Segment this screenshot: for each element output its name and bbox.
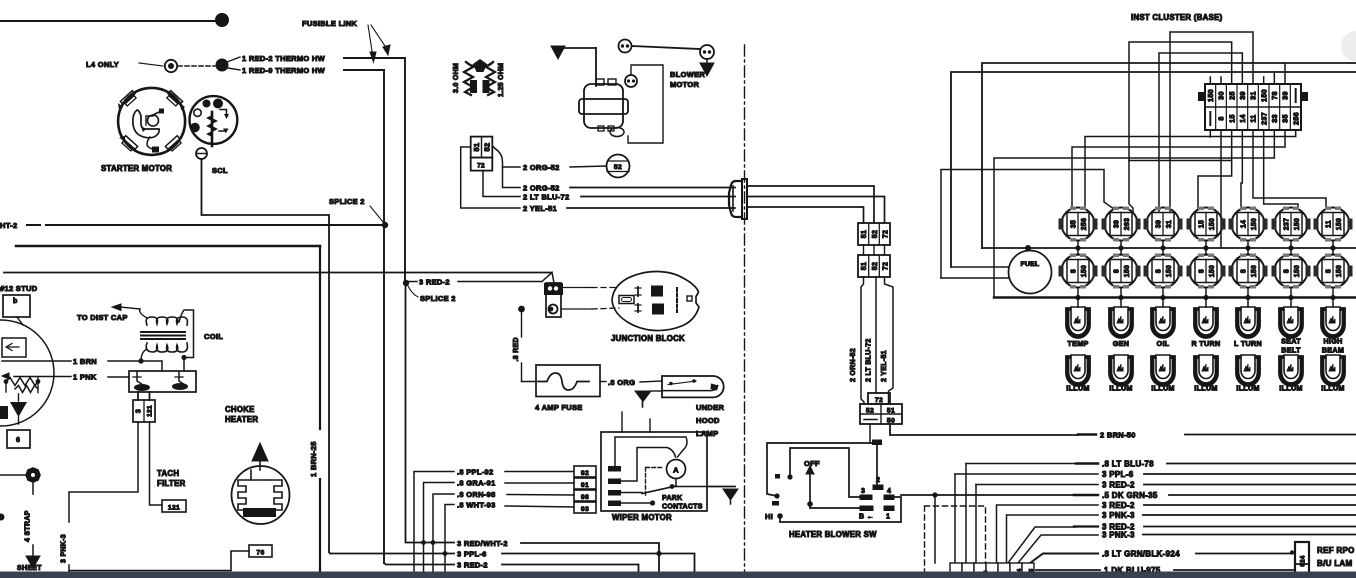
wire: bottom ground bus — [69, 570, 231, 572]
lamp socket SEAT — [1279, 307, 1303, 338]
lamp socket ILLUM — [1279, 355, 1303, 386]
svg-text:3.0 OHM: 3.0 OHM — [453, 63, 460, 93]
wire: cluster pin 8 — [1220, 130, 1222, 248]
wire: cluster pin 33 illum feed — [994, 130, 1274, 297]
connector C-wiper 98 — [574, 490, 596, 501]
wire: bulb stem — [1205, 241, 1207, 249]
wire: 3 RED-2 right b — [997, 505, 1099, 563]
svg-text:11: 11 — [1249, 114, 1258, 122]
svg-text:ILLUM: ILLUM — [1109, 384, 1132, 393]
solenoid SCL — [190, 96, 238, 146]
ground: blower feed ground (left) — [551, 46, 565, 59]
svg-text:FILTER: FILTER — [157, 479, 186, 488]
screw terminal 2 — [700, 45, 714, 59]
svg-text:150: 150 — [1251, 265, 1258, 277]
connector: gauge bulb 39/263 — [1102, 207, 1141, 242]
svg-text:263: 263 — [1124, 218, 1131, 230]
svg-text:39: 39 — [1281, 91, 1290, 100]
junction block — [612, 271, 699, 330]
svg-text:TACH: TACH — [157, 469, 179, 478]
svg-text:924: 924 — [1300, 555, 1307, 566]
switch: ignition switch dashed outline — [925, 506, 986, 578]
svg-text:CONTACTS: CONTACTS — [662, 504, 703, 511]
wire: cluster pin 14 — [1241, 130, 1242, 209]
svg-text:237: 237 — [1259, 112, 1268, 125]
svg-text:PARK: PARK — [662, 495, 683, 502]
svg-text:150: 150 — [1124, 265, 1131, 277]
switch: heater blower switch — [767, 443, 901, 522]
connector: lamp bulb 8/150 — [1314, 254, 1353, 289]
svg-text:JUNCTION BLOCK: JUNCTION BLOCK — [611, 334, 685, 343]
wire: 2 ORG-52 to firewall — [503, 167, 521, 188]
wire: coil primary to points — [141, 349, 147, 361]
svg-text:150: 150 — [1166, 265, 1173, 277]
choke heater — [232, 466, 290, 524]
wire: choke feed arrow — [259, 448, 261, 470]
wire: blower feed — [558, 47, 596, 49]
svg-text:WIPER MOTOR: WIPER MOTOR — [612, 513, 672, 522]
svg-text:HEATER: HEATER — [225, 415, 258, 424]
svg-text:FUEL: FUEL — [1021, 261, 1040, 268]
lamp socket ILLUM — [1321, 355, 1345, 386]
connector C51/52 engine side — [471, 137, 493, 158]
wire: cluster pin 11 — [1253, 130, 1326, 209]
svg-text:93: 93 — [581, 506, 589, 513]
wire: cluster pin 237 — [1264, 130, 1298, 209]
svg-text:B ←: B ← — [859, 514, 874, 521]
grommet: firewall pass-through — [729, 179, 747, 219]
svg-text:25: 25 — [1227, 91, 1236, 100]
blower motor body — [579, 75, 637, 137]
wire: bulb stem — [1247, 241, 1249, 249]
wire: gauge mid bus — [982, 247, 1356, 249]
svg-text:76: 76 — [256, 550, 264, 557]
wire: illumination bus — [994, 296, 1356, 298]
svg-text:INST CLUSTER (BASE): INST CLUSTER (BASE) — [1131, 13, 1223, 22]
wire: 3 PPL-6 right — [954, 474, 956, 563]
wire: tach pin 3 — [69, 422, 138, 522]
wire: fuel gauge leads — [951, 266, 1009, 268]
connector C52/51 + 50 heater — [860, 404, 902, 424]
connector: gauge bulb 15/150 — [1187, 207, 1226, 242]
svg-text:L4 ONLY: L4 ONLY — [86, 60, 119, 69]
svg-text:8: 8 — [1156, 269, 1163, 273]
svg-text:.8 ORN-98: .8 ORN-98 — [457, 490, 496, 499]
connector: lamp bulb 8/150 — [1144, 254, 1183, 289]
svg-text:150: 150 — [1081, 265, 1088, 277]
svg-text:35: 35 — [1281, 114, 1290, 123]
svg-text:15: 15 — [1227, 114, 1236, 123]
wire: lamp stems — [1120, 248, 1122, 255]
wire: 3 PNK-3 right a — [1007, 515, 1099, 563]
svg-text:3 RED-2: 3 RED-2 — [457, 561, 488, 570]
wire: 2 LT BLU-72 — [483, 171, 520, 197]
node: battery junction dot — [215, 13, 229, 27]
svg-text:3 PPL-6: 3 PPL-6 — [1102, 470, 1134, 479]
svg-text:HT-2: HT-2 — [0, 221, 17, 230]
svg-text:2 LT BLU-72: 2 LT BLU-72 — [523, 193, 570, 202]
starter motor — [118, 88, 185, 155]
wire: 3 PNK-3 right b — [1018, 535, 1098, 563]
svg-text:MOTOR: MOTOR — [670, 80, 700, 89]
wire: cab side 51 — [748, 207, 864, 223]
wire: cab side 72 — [748, 197, 885, 224]
svg-text:51: 51 — [472, 143, 481, 152]
svg-text:52: 52 — [872, 230, 879, 238]
svg-text:b: b — [13, 298, 18, 305]
svg-text:BELT: BELT — [1281, 346, 1301, 355]
wire: firewall dash-dot divider — [744, 45, 746, 571]
svg-text:39: 39 — [1238, 91, 1247, 100]
wiper motor — [601, 432, 707, 511]
wire: 2 BRN-50 — [890, 424, 1078, 435]
svg-text:150: 150 — [1336, 265, 1343, 277]
svg-text:HI: HI — [765, 512, 773, 521]
wire: cluster spare pin stubs — [1209, 77, 1211, 84]
connector: lamp bulb 8/150 — [1102, 254, 1141, 289]
svg-text:150: 150 — [1209, 218, 1216, 230]
svg-text:51: 51 — [887, 408, 895, 415]
wire: switch feed stub — [869, 424, 871, 443]
svg-text:2 ORG-52: 2 ORG-52 — [523, 163, 560, 172]
connector: gauge bulb 237/150 — [1272, 207, 1311, 242]
svg-text:HOOD: HOOD — [696, 416, 720, 425]
svg-text:3 PNK-3: 3 PNK-3 — [1102, 531, 1135, 540]
wire: lamp stems — [1162, 248, 1164, 255]
svg-text:1: 1 — [886, 514, 890, 521]
wire: battery feed top-left — [0, 20, 217, 22]
svg-text:.8 LT BLU-78: .8 LT BLU-78 — [1102, 460, 1154, 469]
svg-text:OIL: OIL — [1157, 339, 1170, 348]
svg-text:33: 33 — [1270, 114, 1279, 123]
svg-text:1 PNK: 1 PNK — [73, 373, 97, 382]
wire: 3 RED/WHT-2 — [406, 283, 455, 543]
svg-text:8: 8 — [1217, 116, 1226, 120]
connector: lamp bulb 8/150 — [1229, 254, 1268, 289]
svg-text:150: 150 — [1206, 89, 1215, 102]
svg-text:4: 4 — [887, 488, 891, 495]
wire: .8 GRA-91 — [424, 483, 455, 572]
svg-text:ILLUM: ILLUM — [1236, 384, 1259, 393]
svg-text:256: 256 — [1081, 218, 1088, 230]
wire: cab side 52 — [748, 186, 874, 223]
svg-text:1 RED-2 THERMO HW: 1 RED-2 THERMO HW — [242, 54, 326, 63]
svg-text:14: 14 — [1241, 220, 1248, 228]
svg-text:1 RED-9 THERMO HW: 1 RED-9 THERMO HW — [242, 66, 326, 75]
lamp socket ILLUM — [1236, 355, 1260, 386]
lamp socket TEMP — [1066, 307, 1090, 338]
ground: under hood lamp ground — [651, 390, 662, 392]
svg-text:72: 72 — [883, 230, 890, 238]
svg-text:121: 121 — [147, 405, 154, 417]
wire: SCL lead — [202, 159, 330, 552]
svg-text:BEAM: BEAM — [1322, 346, 1344, 355]
svg-text:150: 150 — [1294, 218, 1301, 230]
svg-text:SEAT: SEAT — [1281, 337, 1301, 346]
svg-text:72: 72 — [883, 262, 890, 270]
svg-text:2 LT BLU-72: 2 LT BLU-72 — [866, 338, 873, 382]
connector: lamp bulb 8/150 — [1059, 254, 1098, 289]
svg-text:150: 150 — [1259, 89, 1268, 102]
ground: blower ground (right) — [706, 59, 708, 63]
node: splice 2 dot — [382, 222, 388, 228]
svg-text:8: 8 — [1071, 269, 1078, 273]
svg-text:3 PNK-3: 3 PNK-3 — [61, 534, 68, 563]
svg-text:REF RPO: REF RPO — [1317, 546, 1355, 555]
svg-text:15: 15 — [1199, 220, 1206, 228]
wire: 3 RED-2 right a — [975, 485, 977, 564]
svg-text:4 STRAP: 4 STRAP — [25, 510, 32, 542]
svg-text:150: 150 — [1251, 218, 1258, 230]
svg-text:52: 52 — [483, 143, 492, 152]
node: SCL terminal grommet — [196, 148, 207, 159]
connector: instrument cluster C-body — [1198, 77, 1308, 137]
wire: cluster pin 39b feed — [1284, 63, 1286, 84]
svg-text:50: 50 — [887, 418, 895, 425]
svg-text:1 BRN: 1 BRN — [73, 357, 97, 366]
svg-text:HEATER BLOWER SW: HEATER BLOWER SW — [789, 530, 877, 539]
connector C-wiper 91 — [574, 478, 596, 489]
connector: gauge bulb 11/150 — [1314, 207, 1353, 242]
wire: 1 BRN — [2, 360, 71, 362]
svg-text:35: 35 — [1071, 220, 1078, 228]
connector C-bulkhead lower (51/52/72) — [858, 255, 890, 277]
svg-text:ILLUM: ILLUM — [1066, 384, 1089, 393]
wire: 3 RED-2 right c — [1008, 527, 1076, 563]
wire: coil secondary — [179, 310, 194, 371]
wire: dashed L4 jumper — [178, 65, 215, 67]
svg-text:GEN: GEN — [1113, 339, 1129, 348]
svg-text:L TURN: L TURN — [1234, 339, 1262, 348]
svg-text:72: 72 — [875, 397, 883, 404]
wire: 2 YEL-51 vertical — [885, 277, 894, 404]
svg-text:92: 92 — [581, 470, 589, 477]
lamp socket HIGH — [1321, 307, 1345, 338]
connector C-wiper 93 — [574, 502, 596, 513]
svg-text:COIL: COIL — [204, 332, 223, 341]
svg-text:.5 DK GRN-35: .5 DK GRN-35 — [1102, 491, 1158, 500]
connector: gauge bulb 35/256 — [1059, 207, 1098, 242]
node: stray terminal dot left edge — [0, 514, 5, 521]
svg-text:#12 STUD: #12 STUD — [0, 284, 38, 293]
svg-text:52: 52 — [866, 408, 874, 415]
wire: dashed leads into junction block — [562, 287, 592, 289]
connector C-bulkhead upper (51/52/72) — [858, 223, 890, 245]
wire: cluster mid link — [1129, 160, 1232, 162]
svg-text:52: 52 — [872, 262, 879, 270]
wire: tach pin 121 — [150, 422, 163, 505]
svg-text:SHEET: SHEET — [17, 565, 42, 572]
svg-text:51: 51 — [861, 262, 868, 270]
svg-text:.8 LT GRN/BLK-924: .8 LT GRN/BLK-924 — [1102, 550, 1180, 559]
svg-text:.8 WHT-93: .8 WHT-93 — [457, 501, 496, 510]
svg-text:.8 PPL-92: .8 PPL-92 — [457, 468, 493, 477]
svg-text:A: A — [673, 466, 679, 475]
wire: fuel sender feed — [941, 170, 1114, 279]
svg-text:3 RED-2: 3 RED-2 — [1102, 501, 1135, 510]
wire: bulb stem — [1162, 241, 1164, 249]
wire: ign feed bus A — [982, 63, 1356, 248]
svg-text:2 YEL-51: 2 YEL-51 — [881, 350, 888, 382]
svg-text:237: 237 — [1284, 218, 1291, 230]
svg-text:CHOKE: CHOKE — [225, 405, 255, 414]
ground: 4 STRAP ground strap — [0, 474, 26, 476]
svg-text:BLOWER: BLOWER — [670, 70, 705, 79]
wire: .5 DK GRN-35 — [901, 494, 1076, 496]
connector C-junction block feed — [546, 283, 561, 317]
wire: cluster pin 39 jumper — [1159, 53, 1242, 211]
svg-text:3 PPL-6: 3 PPL-6 — [457, 550, 487, 559]
wire: cluster pin 256 — [1085, 130, 1296, 209]
wire: 2 LT BLU-72 vertical — [875, 277, 877, 393]
svg-text:ILLUM: ILLUM — [1279, 384, 1302, 393]
wire: 3 RED-2 bottom — [384, 563, 454, 565]
svg-text:150: 150 — [1294, 265, 1301, 277]
wire: ign feed bus B — [951, 72, 1356, 267]
lamp socket ILLUM — [1109, 355, 1133, 386]
svg-text:121: 121 — [168, 505, 180, 512]
svg-text:SCL: SCL — [212, 166, 228, 175]
svg-text:98: 98 — [581, 494, 589, 501]
wire: cluster pin 35 — [1072, 130, 1285, 209]
wire: .8 LT BLU-78 — [965, 464, 967, 564]
svg-text:8: 8 — [1284, 269, 1291, 273]
decorative scan blotch — [1341, 31, 1356, 61]
svg-text:R TURN: R TURN — [1192, 339, 1221, 348]
svg-text:91: 91 — [581, 482, 589, 489]
lamp socket ILLUM — [1066, 355, 1090, 386]
regulator body circle — [0, 320, 54, 426]
svg-text:52: 52 — [614, 164, 622, 171]
svg-text:11: 11 — [1326, 220, 1333, 228]
wire: bulb stem — [1332, 241, 1334, 249]
svg-text:SPLICE 2: SPLICE 2 — [329, 197, 365, 206]
wire: to right ground — [632, 46, 700, 49]
gauge: FUEL — [1009, 251, 1052, 294]
svg-text:150: 150 — [1209, 265, 1216, 277]
svg-text:39: 39 — [1114, 220, 1121, 228]
wire: 1 DK BLU-975 — [1036, 569, 1100, 571]
svg-text:ILLUM: ILLUM — [1321, 384, 1344, 393]
svg-text:14: 14 — [1238, 114, 1247, 123]
svg-text:2 ORG-52: 2 ORG-52 — [523, 184, 560, 193]
svg-text:51: 51 — [861, 230, 868, 238]
svg-text:3 RED/WHT-2: 3 RED/WHT-2 — [457, 539, 508, 548]
decorative page-bottom band — [0, 572, 1356, 578]
regulator internals — [0, 317, 40, 424]
coil — [140, 309, 188, 352]
svg-text:FUSIBLE LINK: FUSIBLE LINK — [302, 19, 358, 28]
wire: inter-connector stubs — [863, 245, 865, 255]
wire: cluster pin 15 — [1198, 130, 1232, 209]
wire: lamp stems — [1247, 248, 1249, 255]
svg-text:3 PNK-3: 3 PNK-3 — [1102, 511, 1135, 520]
svg-text:39: 39 — [1156, 220, 1163, 228]
lamp socket R TURN — [1194, 307, 1218, 338]
distributor points box — [129, 371, 196, 392]
svg-text:B/U LAM: B/U LAM — [1317, 559, 1352, 568]
svg-text:1.25 OHM: 1.25 OHM — [498, 63, 505, 97]
lamp socket ILLUM — [1194, 355, 1218, 386]
connector: lower body connector strip — [950, 563, 1035, 576]
connector C3/121 tach — [137, 392, 139, 400]
label: SPLICE 2 (lower) — [408, 286, 418, 297]
wire: 3 RED-2 splice branch — [403, 280, 409, 286]
svg-text:ILLUM: ILLUM — [1151, 384, 1174, 393]
svg-text:2 YEL-51: 2 YEL-51 — [523, 204, 557, 213]
svg-text:.8 GRA-91: .8 GRA-91 — [457, 479, 496, 488]
wire: 1 BRN-25 — [16, 245, 320, 248]
wire: lamp stems — [1205, 248, 1207, 255]
connector C72 engine side — [471, 158, 493, 171]
svg-text:3 RED-2: 3 RED-2 — [1102, 481, 1135, 490]
wire: cluster pin 25 jumper — [1129, 42, 1232, 161]
wire: 1 RED-2 THERMO HW — [227, 57, 240, 62]
wire: .8 PPL-92 — [414, 472, 454, 572]
wire: cluster pin 31 jumper — [1170, 32, 1253, 211]
svg-text:31: 31 — [1249, 91, 1258, 100]
lamp: under hood lamp — [662, 376, 724, 397]
svg-text:HIGH: HIGH — [1323, 337, 1342, 346]
wire: lamp stems — [1332, 248, 1334, 255]
connector: regulator terminal b — [3, 295, 30, 317]
wire: 2 ORG-52 to grommet 52 — [492, 146, 520, 167]
svg-text:UNDER: UNDER — [696, 403, 724, 412]
svg-text:4 AMP FUSE: 4 AMP FUSE — [535, 403, 583, 412]
wire: blower motor loop — [628, 65, 663, 143]
wire: 3 PPL-6 — [329, 552, 454, 554]
wire: bulb stem — [1290, 241, 1292, 249]
svg-text:6: 6 — [16, 437, 20, 444]
svg-text:2 BRN-50: 2 BRN-50 — [1100, 431, 1136, 440]
connector: regulator terminal 6 — [7, 430, 30, 448]
wire: 1 PNK — [14, 376, 71, 378]
wire: lamp stems — [1290, 248, 1292, 255]
svg-text:STARTER MOTOR: STARTER MOTOR — [101, 164, 172, 173]
svg-text:.8 RED: .8 RED — [513, 337, 520, 361]
wire: 2 YEL-51 — [461, 147, 520, 208]
svg-text:2 ORN-52: 2 ORN-52 — [850, 348, 857, 382]
connector C72 heater — [868, 393, 890, 404]
wire: .8 ORG — [600, 381, 606, 383]
connector: 121 box — [162, 500, 186, 512]
connector: 924/76 backup lamp feed — [1295, 542, 1309, 578]
connector C-wiper 92 — [574, 466, 596, 477]
svg-text:1 BRN-25: 1 BRN-25 — [309, 441, 318, 477]
connector: lamp bulb 8/150 — [1187, 254, 1226, 289]
connector: 76 box — [249, 545, 272, 557]
svg-text:2: 2 — [876, 477, 880, 484]
svg-text:OFF: OFF — [804, 459, 820, 468]
wire: main harness feed — [4, 272, 551, 274]
wire: .8 ORN-98 — [433, 494, 454, 571]
lamp socket GEN — [1109, 307, 1133, 338]
grommet: circle 52 — [607, 155, 630, 178]
lamp socket L TURN — [1236, 307, 1260, 338]
wire: cluster pin 78 feed — [1273, 72, 1275, 84]
wire: lamp stems — [1077, 248, 1079, 255]
svg-text:8: 8 — [1199, 269, 1206, 273]
svg-text:.8 ORG: .8 ORG — [608, 378, 635, 387]
connector: lamp bulb 8/150 — [1272, 254, 1311, 289]
svg-text:31: 31 — [1166, 220, 1173, 228]
svg-text:72: 72 — [477, 163, 485, 170]
wire: 76 lead — [231, 551, 249, 570]
resistor: 3.0 OHM / 1.25 OHM blower resistor — [453, 59, 505, 97]
svg-text:ILLUM: ILLUM — [1194, 384, 1217, 393]
wire: wiper box top stubs — [621, 412, 623, 432]
lamp socket ILLUM — [1151, 355, 1175, 386]
